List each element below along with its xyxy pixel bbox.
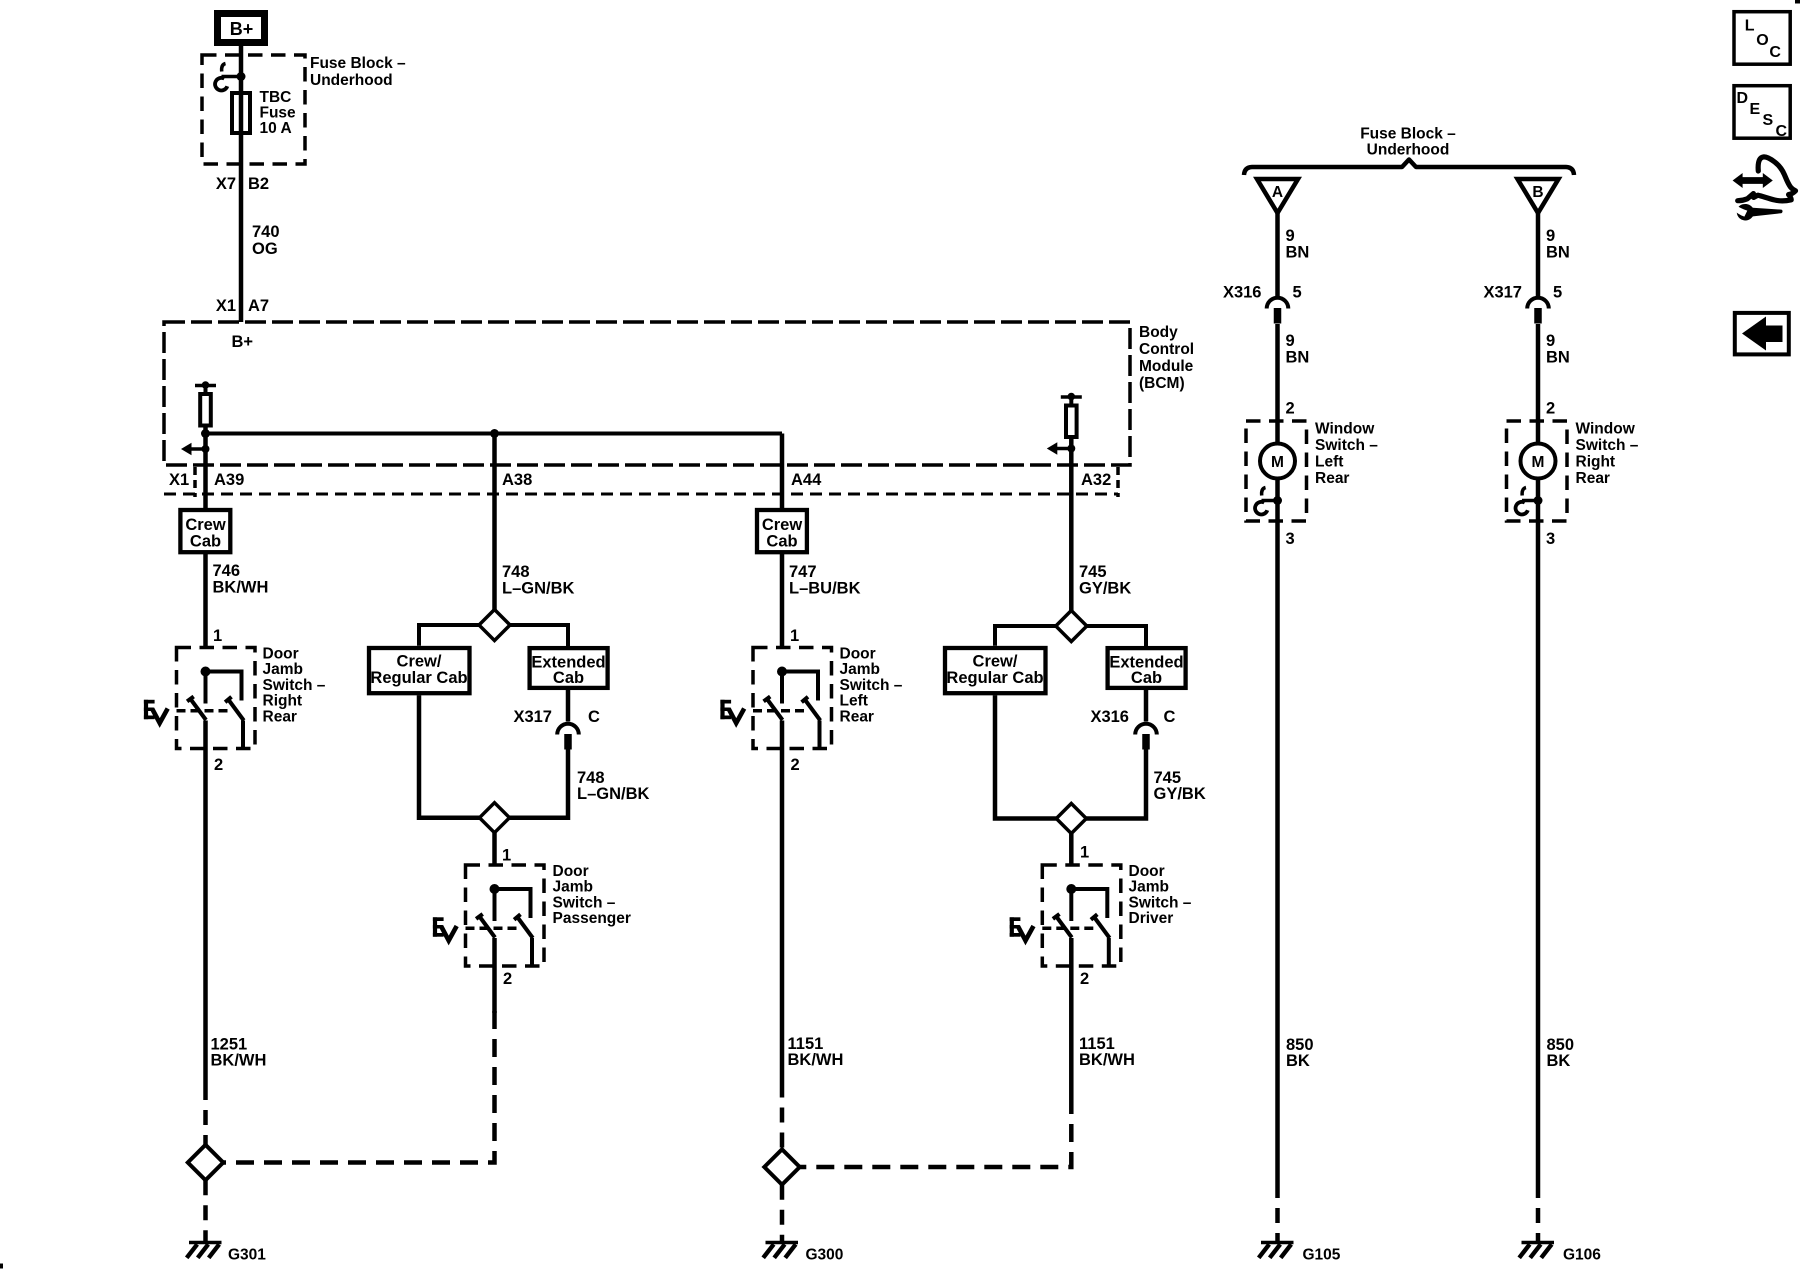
dashed wire to G301 <box>203 1180 208 1237</box>
svg-text:Cab: Cab <box>553 669 584 687</box>
motor M window right rear <box>1521 444 1556 479</box>
wire label 745 GY/BK lower <box>1154 769 1206 803</box>
svg-text:G105: G105 <box>1303 1247 1341 1264</box>
svg-text:9: 9 <box>1546 227 1555 245</box>
wire label 9 BN lower <box>1286 332 1310 367</box>
svg-text:2: 2 <box>503 970 512 988</box>
svg-text:X316: X316 <box>1223 284 1262 302</box>
svg-text:X1: X1 <box>216 297 236 315</box>
svg-text:Control: Control <box>1139 341 1194 358</box>
wire 745 GY/BK below connector <box>1086 750 1146 819</box>
svg-text:X7: X7 <box>216 175 236 193</box>
fuse terminal triangle B <box>1518 179 1559 213</box>
svg-text:E: E <box>1750 101 1761 118</box>
svg-text:Crew/: Crew/ <box>397 653 442 671</box>
svg-text:Switch –: Switch – <box>553 894 616 911</box>
svg-text:B+: B+ <box>232 333 254 351</box>
wire 748 L-GN/BK below connector <box>510 750 569 818</box>
svg-text:A39: A39 <box>214 471 244 489</box>
svg-text:Passenger: Passenger <box>553 910 631 927</box>
svg-text:1: 1 <box>1080 844 1089 862</box>
svg-text:X316: X316 <box>1090 708 1129 726</box>
junction dot on fuse feed <box>237 72 246 81</box>
page corner mark bottom left <box>0 1264 3 1269</box>
svg-text:Rear: Rear <box>840 708 874 725</box>
svg-text:C: C <box>588 708 600 726</box>
svg-text:9: 9 <box>1546 332 1555 350</box>
window switch right rear label <box>1576 421 1639 488</box>
svg-text:3: 3 <box>1546 530 1555 548</box>
svg-text:5: 5 <box>1293 284 1302 302</box>
wire 1151 BK/WH right <box>1069 966 1074 1096</box>
dashed wire to G105 <box>1275 1183 1280 1237</box>
svg-text:BK/WH: BK/WH <box>1079 1051 1135 1069</box>
svg-text:Right: Right <box>1576 454 1616 471</box>
fuse TBC 10A <box>232 93 250 133</box>
wire label 740 OG <box>252 223 280 258</box>
svg-text:Driver: Driver <box>1129 910 1174 927</box>
svg-text:L–GN/BK: L–GN/BK <box>577 785 650 803</box>
wire label 1251 BK/WH <box>211 1036 267 1070</box>
svg-text:Door: Door <box>840 646 876 663</box>
svg-text:Fuse: Fuse <box>260 105 297 122</box>
BCM name label <box>1139 324 1194 392</box>
fuse feed tap curl <box>215 64 241 91</box>
ground G105 <box>1259 1237 1294 1258</box>
svg-text:Rear: Rear <box>263 708 297 725</box>
splice diamond A32 upper <box>1056 611 1087 642</box>
svg-text:Underhood: Underhood <box>1367 142 1450 159</box>
door jamb switch passenger with Ev actuator <box>433 865 544 966</box>
dashed ground bus from driver switch <box>800 1096 1072 1167</box>
fuse block label <box>310 55 406 89</box>
svg-text:740: 740 <box>252 223 280 241</box>
door jamb switch driver label <box>1129 863 1192 927</box>
dashed ground bus from passenger switch <box>223 1011 494 1163</box>
wire label 746 BK/WH <box>213 562 269 597</box>
door jamb switch left rear with Ev actuator <box>720 648 831 749</box>
svg-text:Cab: Cab <box>190 533 221 551</box>
svg-text:Window: Window <box>1576 421 1636 438</box>
svg-text:Switch –: Switch – <box>840 677 903 694</box>
door jamb switch right rear with Ev actuator <box>144 648 255 749</box>
door jamb switch right rear label <box>263 646 326 726</box>
svg-text:Body: Body <box>1139 324 1178 341</box>
svg-text:2: 2 <box>1286 400 1295 418</box>
motor M window left rear <box>1260 444 1295 479</box>
svg-text:G106: G106 <box>1563 1247 1601 1264</box>
battery positive terminal B+ <box>218 14 265 43</box>
dashed wire to splice <box>203 1085 208 1145</box>
svg-text:9: 9 <box>1286 227 1295 245</box>
switch contact curl right rear <box>1516 488 1543 515</box>
svg-text:Door: Door <box>263 646 299 663</box>
svg-text:Left: Left <box>840 693 868 710</box>
svg-text:Rear: Rear <box>1315 470 1349 487</box>
wire 850 BK right <box>1536 521 1541 1183</box>
svg-text:2: 2 <box>791 756 800 774</box>
svg-text:Door: Door <box>553 863 589 880</box>
svg-text:Underhood: Underhood <box>310 72 393 89</box>
back arrow navigation icon <box>1735 313 1789 355</box>
svg-text:S: S <box>1763 112 1774 129</box>
svg-text:G301: G301 <box>228 1247 266 1264</box>
svg-text:Fuse Block –: Fuse Block – <box>310 55 406 72</box>
wire through fuse <box>239 76 244 164</box>
window switch right rear dashed box <box>1507 421 1568 521</box>
svg-text:TBC: TBC <box>260 89 292 106</box>
svg-text:M: M <box>1532 454 1545 471</box>
COL3 wire from A44 <box>780 434 785 509</box>
splice diamond A32 lower <box>1056 804 1086 834</box>
wire motor to switch contact right <box>1536 479 1541 522</box>
splice diamond right <box>764 1149 799 1184</box>
crew/regular cab option box <box>369 648 470 693</box>
svg-text:L–GN/BK: L–GN/BK <box>502 580 575 598</box>
svg-text:Crew: Crew <box>762 516 803 534</box>
window switch left rear label <box>1315 421 1378 488</box>
svg-text:Jamb: Jamb <box>1129 879 1170 896</box>
svg-text:Module: Module <box>1139 358 1194 375</box>
connector separator right <box>1116 467 1120 497</box>
svg-text:Regular Cab: Regular Cab <box>370 669 467 687</box>
wire label 748 L-GN/BK <box>502 563 575 598</box>
crew cab connector box col3 <box>757 510 807 552</box>
svg-text:C: C <box>1164 708 1176 726</box>
fuse block underhood dashed box <box>202 55 305 164</box>
extended cab option box col4 <box>1108 648 1186 688</box>
svg-text:Jamb: Jamb <box>840 661 881 678</box>
svg-text:9: 9 <box>1286 332 1295 350</box>
wire 1251 BK/WH <box>203 749 208 1086</box>
svg-text:Cab: Cab <box>766 533 797 551</box>
COL2 wire from A38 <box>492 434 497 611</box>
svg-text:L: L <box>1745 18 1755 35</box>
in-line connector X316 C <box>1135 724 1157 750</box>
svg-text:745: 745 <box>1079 563 1107 581</box>
wire B+ to fuse block <box>239 46 244 76</box>
wire driver to A39 <box>203 426 208 509</box>
svg-text:Crew/: Crew/ <box>973 653 1018 671</box>
svg-text:A44: A44 <box>791 471 822 489</box>
svg-text:A38: A38 <box>502 471 532 489</box>
dashed wire to G300 <box>780 1185 785 1237</box>
svg-text:747: 747 <box>789 563 817 581</box>
svg-text:Switch –: Switch – <box>1129 894 1192 911</box>
svg-text:BN: BN <box>1286 244 1310 262</box>
wire below crew/regular cab col4 <box>995 695 1056 818</box>
ground G106 <box>1519 1237 1554 1258</box>
svg-text:Jamb: Jamb <box>553 879 594 896</box>
DESC navigation icon <box>1734 86 1790 140</box>
svg-text:BN: BN <box>1546 349 1570 367</box>
wire 740 OG <box>239 164 244 322</box>
fuse block brace <box>1244 160 1574 176</box>
wire to door jamb switch driver <box>1069 834 1074 866</box>
svg-text:748: 748 <box>502 563 530 581</box>
svg-text:O: O <box>1756 32 1768 49</box>
svg-text:3: 3 <box>1286 530 1295 548</box>
wire label 9 BN <box>1286 227 1310 262</box>
svg-text:B2: B2 <box>248 175 269 193</box>
svg-text:2: 2 <box>1080 970 1089 988</box>
svg-text:BN: BN <box>1286 349 1310 367</box>
svg-text:Window: Window <box>1315 421 1375 438</box>
output arrow left <box>181 443 210 455</box>
svg-text:Left: Left <box>1315 454 1343 471</box>
splice diamond A38 upper <box>479 610 510 641</box>
svg-text:C: C <box>1776 123 1788 140</box>
wire below passenger switch <box>492 966 497 1013</box>
splice diamond left <box>188 1145 223 1180</box>
BCM connector row dotted line <box>164 493 1118 496</box>
wire 9 BN upper right <box>1536 213 1541 296</box>
in-line connector X317 C <box>557 724 579 750</box>
svg-text:Crew: Crew <box>185 516 226 534</box>
svg-text:1: 1 <box>502 847 511 865</box>
window switch left rear dashed box <box>1246 421 1307 521</box>
svg-text:BN: BN <box>1546 244 1570 262</box>
svg-text:BK/WH: BK/WH <box>213 579 269 597</box>
wire 9 BN lower left <box>1275 324 1280 444</box>
svg-text:BK/WH: BK/WH <box>211 1052 267 1070</box>
BCM output driver right <box>1061 393 1082 437</box>
wire 850 BK left <box>1275 521 1280 1183</box>
svg-text:Switch –: Switch – <box>1315 437 1378 454</box>
harness routing icon with double arrow and wrench <box>1733 157 1796 221</box>
svg-text:D: D <box>1737 90 1749 107</box>
COL4 wire from A32 <box>1069 439 1074 611</box>
fuse value label TBC Fuse 10 A <box>260 89 297 137</box>
wire extended cab to connector <box>566 690 571 722</box>
svg-text:Switch –: Switch – <box>263 677 326 694</box>
svg-text:Regular Cab: Regular Cab <box>946 669 1043 687</box>
wire 747 L-BU/BK <box>780 554 785 648</box>
svg-text:L–BU/BK: L–BU/BK <box>789 580 861 598</box>
wire below crew/regular cab <box>419 695 480 818</box>
extended cab option box <box>530 648 608 688</box>
COL1 crew cab connector box <box>180 510 230 552</box>
svg-text:G300: G300 <box>806 1247 844 1264</box>
door jamb switch driver with Ev actuator <box>1010 865 1121 966</box>
svg-text:A: A <box>1272 184 1283 201</box>
svg-text:X317: X317 <box>513 708 552 726</box>
branch wires to cab option boxes col4 <box>995 626 1056 646</box>
svg-text:5: 5 <box>1553 284 1562 302</box>
internal bus wire <box>206 432 783 436</box>
switch contact curl left rear <box>1255 488 1282 515</box>
svg-text:1: 1 <box>790 627 799 645</box>
dashed wire to G106 <box>1536 1183 1541 1237</box>
in-line connector X317 pin 5 <box>1527 298 1549 324</box>
wire label 747 L-BU/BK <box>789 563 861 598</box>
wire 746 BK/WH <box>203 554 208 648</box>
svg-text:10 A: 10 A <box>260 120 292 137</box>
door jamb switch passenger label <box>553 863 631 927</box>
svg-text:A7: A7 <box>248 297 269 315</box>
svg-text:GY/BK: GY/BK <box>1079 580 1131 598</box>
svg-text:Right: Right <box>263 693 303 710</box>
svg-text:Fuse Block –: Fuse Block – <box>1360 126 1456 143</box>
ground G300 <box>763 1237 798 1258</box>
wire label 9 BN lower right <box>1546 332 1570 367</box>
junction dot A39 bus <box>201 429 210 438</box>
svg-text:Jamb: Jamb <box>263 661 304 678</box>
in-line connector X316 pin 5 <box>1267 298 1289 324</box>
wire label 745 GY/BK <box>1079 563 1131 598</box>
svg-text:746: 746 <box>213 562 241 580</box>
splice diamond A38 lower <box>480 803 510 833</box>
svg-text:C: C <box>1769 44 1781 61</box>
svg-text:B+: B+ <box>230 19 254 39</box>
dashed wire to splice G300 <box>780 1083 785 1150</box>
svg-text:1: 1 <box>213 627 222 645</box>
connector X1 separator left <box>193 467 197 497</box>
svg-text:A32: A32 <box>1081 471 1111 489</box>
svg-text:OG: OG <box>252 240 278 258</box>
svg-text:BK: BK <box>1547 1052 1571 1070</box>
svg-text:Door: Door <box>1129 863 1165 880</box>
svg-text:GY/BK: GY/BK <box>1154 785 1206 803</box>
svg-text:BK: BK <box>1286 1052 1310 1070</box>
BCM output driver left <box>195 381 216 425</box>
svg-text:Cab: Cab <box>1131 669 1162 687</box>
body control module BCM dashed box <box>164 322 1130 465</box>
branch wires to cab option boxes <box>419 625 480 646</box>
svg-text:2: 2 <box>1546 400 1555 418</box>
svg-text:X317: X317 <box>1483 284 1522 302</box>
wire 9 BN lower right <box>1536 324 1541 444</box>
fuse block underhood label right <box>1360 126 1456 159</box>
door jamb switch left rear label <box>840 646 903 726</box>
wire label 748 L-GN/BK lower <box>577 769 650 803</box>
svg-text:Switch –: Switch – <box>1576 437 1639 454</box>
wire label 850 BK right <box>1547 1036 1575 1070</box>
wire 9 BN upper left <box>1275 213 1280 296</box>
page corner mark top right <box>1795 0 1800 4</box>
svg-text:X1: X1 <box>169 471 189 489</box>
wire extended cab to connector col4 <box>1144 690 1149 722</box>
svg-text:M: M <box>1271 454 1284 471</box>
junction dot A38 bus <box>490 429 499 438</box>
svg-text:2: 2 <box>214 756 223 774</box>
wire label 1151 BK/WH right <box>1079 1035 1135 1069</box>
wire label 1151 BK/WH left <box>788 1035 844 1069</box>
svg-text:(BCM): (BCM) <box>1139 375 1185 392</box>
crew/regular cab option box col4 <box>945 648 1046 693</box>
svg-text:BK/WH: BK/WH <box>788 1051 844 1069</box>
output arrow right <box>1047 442 1076 454</box>
svg-text:Rear: Rear <box>1576 470 1610 487</box>
wire label 850 BK left <box>1286 1036 1314 1070</box>
wire label 9 BN right <box>1546 227 1570 262</box>
LOC navigation icon <box>1734 12 1790 64</box>
svg-text:B: B <box>1532 184 1543 201</box>
wire motor to switch contact <box>1275 479 1280 522</box>
ground G301 <box>187 1237 222 1258</box>
wire to door jamb switch passenger <box>492 833 497 865</box>
wire 1151 BK/WH left <box>780 749 785 1083</box>
fuse terminal triangle A <box>1257 179 1298 213</box>
